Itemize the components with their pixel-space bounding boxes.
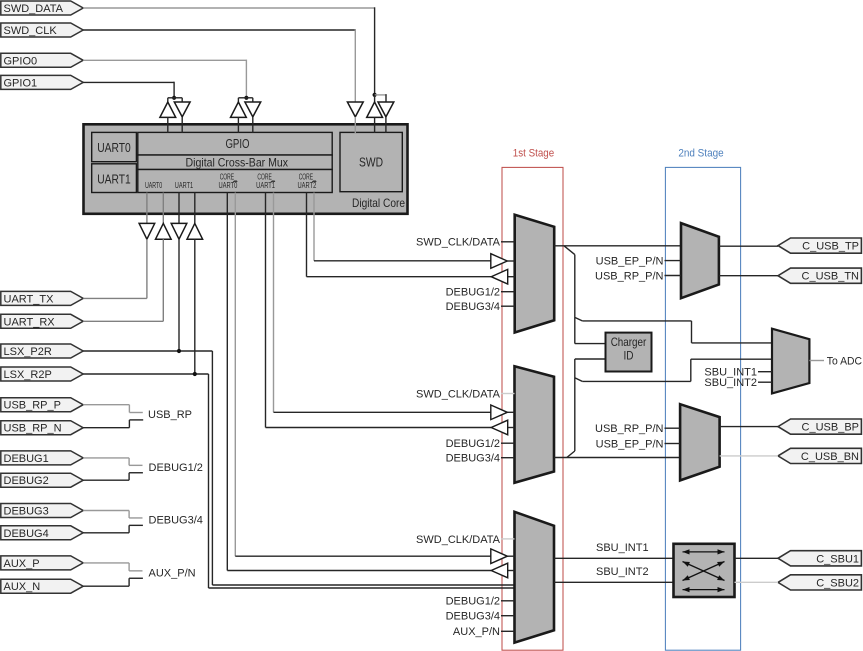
wire SWD_DATA vertical (374, 7, 376, 95)
buffer GPIO0 out (up triangle) (231, 102, 247, 117)
input flag DEBUG3 (1, 504, 83, 518)
input flag LSX_R2P (1, 367, 83, 381)
buffer RX out of mux (491, 420, 514, 435)
buffer TX into mux (491, 405, 515, 420)
svg-text:DEBUG3/4: DEBUG3/4 (446, 453, 500, 465)
mux 2nd-stage top (C_USB_T) (681, 223, 719, 298)
buffer SWD_DATA in (down triangle) (378, 102, 394, 117)
label SBU_INT1 tick to ADC mux (704, 367, 772, 379)
svg-text:SWD_CLK/DATA: SWD_CLK/DATA (416, 237, 501, 249)
label SWD_CLK/DATA input tick (416, 534, 514, 546)
buffer GPIO0 in (down triangle) (245, 102, 261, 117)
label DEBUG3/4 input tick (446, 611, 515, 623)
buffer LSX_P2R (down triangle) (171, 223, 187, 239)
wire CORE_UART2 RX (dark) from mux1 (306, 193, 308, 277)
wire C_USB_TP output (719, 245, 778, 247)
label USB_RP_P/N tick (595, 423, 680, 435)
label USB_EP_P/N tick (596, 438, 680, 450)
wire AUX_P/N pair bracket (83, 563, 143, 586)
svg-text:GPIO0: GPIO0 (4, 55, 38, 67)
svg-text:C_USB_TP: C_USB_TP (802, 241, 859, 253)
input flag AUX_N (1, 579, 83, 593)
output flag C_SBU1 (778, 551, 861, 566)
wire CORE_UART0 RX (dark) from mux3 (226, 193, 228, 571)
input flag USB_RP_P (1, 398, 83, 412)
svg-text:DEBUG1: DEBUG1 (4, 453, 49, 465)
svg-text:DEBUG2: DEBUG2 (4, 475, 49, 487)
node SWD_DATA junction (373, 93, 377, 97)
svg-text:UART1: UART1 (97, 172, 131, 186)
wire UART0 TX from core (146, 193, 148, 224)
input flag SWD_DATA (1, 1, 83, 15)
label DEBUG3/4 input tick (446, 453, 515, 465)
input flag DEBUG1 (1, 451, 83, 465)
wire mux1 output branch diagonal (564, 246, 575, 255)
wire CORE_UART1 RX (dark) from mux2 (265, 193, 267, 428)
wire SWD_CLK vertical (354, 29, 356, 102)
buffer TX into mux (491, 254, 515, 269)
buffer GPIO1 out (up triangle) (160, 102, 176, 117)
input flag USB_RP_N (1, 421, 83, 435)
wire mux2 output branch diagonal (567, 451, 575, 458)
svg-text:USB_RP_P/N: USB_RP_P/N (595, 270, 664, 282)
svg-text:C_SBU1: C_SBU1 (816, 553, 859, 565)
1st Stage region box (502, 148, 563, 650)
svg-text:USB_RP_N: USB_RP_N (4, 423, 62, 435)
node LSX_R2P junction (193, 372, 197, 376)
label DEBUG1/2 input tick (446, 596, 515, 608)
wire LSX_R2P horizontal (83, 373, 208, 375)
node LSX_P2R junction (177, 349, 181, 353)
svg-text:SWD_CLK: SWD_CLK (4, 25, 58, 37)
label DEBUG1/2 input tick (446, 287, 515, 299)
svg-text:SBU_INT2: SBU_INT2 (596, 566, 649, 578)
buffer SWD_CLK in (down triangle) (347, 102, 363, 117)
svg-text:UART_RX: UART_RX (4, 316, 56, 328)
wire GPIO1 horizontal (83, 81, 174, 83)
input flag DEBUG4 (1, 526, 83, 540)
wire UART_RX (162, 239, 164, 321)
wire LSX_P2R vertical to flag line (178, 239, 180, 351)
svg-text:SWD_CLK/DATA: SWD_CLK/DATA (416, 534, 501, 546)
wire LSX_R2P vertical to flag line (194, 239, 196, 374)
label USB_RP_P/N tick (595, 270, 681, 282)
label SBU_INT2 tick to ADC mux (704, 377, 772, 389)
svg-text:USB_RP_P: USB_RP_P (4, 400, 61, 412)
input flag UART_TX (1, 291, 83, 305)
svg-text:1st Stage: 1st Stage (513, 148, 554, 160)
input flag DEBUG2 (1, 473, 83, 487)
svg-text:DEBUG1/2: DEBUG1/2 (446, 438, 500, 450)
node GPIO1 junction (172, 96, 176, 100)
wire mux2 output to 2nd stage (554, 457, 680, 459)
svg-text:UART1: UART1 (256, 181, 275, 190)
svg-text:Digital Cross-Bar Mux: Digital Cross-Bar Mux (186, 155, 289, 169)
wire branch jog to ADC input 2 (575, 378, 583, 382)
wire UART0 RX into core (162, 193, 164, 224)
mux ADC monitor (772, 329, 809, 394)
UART1 block (92, 164, 137, 193)
wire branch jog to ADC input 1 (575, 317, 583, 321)
wire GPIO1 pair tee (168, 97, 182, 99)
svg-text:DEBUG3/4: DEBUG3/4 (149, 514, 203, 526)
buffer RX out of mux (491, 269, 515, 284)
wire SWD_DATA horizontal (83, 7, 374, 9)
svg-text:GPIO: GPIO (225, 137, 249, 151)
svg-text:USB_EP_P/N: USB_EP_P/N (596, 256, 664, 268)
svg-text:UART_TX: UART_TX (4, 293, 55, 305)
svg-text:DEBUG1/2: DEBUG1/2 (446, 596, 500, 608)
svg-text:LSX_P2R: LSX_P2R (4, 346, 52, 358)
buffer LSX_R2P (up triangle) (187, 223, 203, 239)
UART0 block (92, 132, 137, 161)
wire GPIO0 pair tee (238, 97, 252, 99)
svg-text:C_SBU2: C_SBU2 (816, 577, 859, 589)
svg-text:AUX_N: AUX_N (4, 581, 41, 593)
output flag C_USB_BP (778, 419, 861, 434)
wire C_USB_BP output (720, 426, 778, 428)
wire LSX_R2P down to mux3 (208, 374, 210, 588)
wire SWD_CLK horizontal (83, 29, 356, 31)
SWD block (340, 132, 402, 191)
svg-text:DEBUG1/2: DEBUG1/2 (446, 287, 500, 299)
svg-text:UART0: UART0 (145, 181, 163, 190)
wire branch down to Charger ID (574, 255, 576, 344)
label SWD_CLK/DATA input tick (416, 388, 514, 400)
svg-text:DEBUG1/2: DEBUG1/2 (149, 462, 203, 474)
wire SWD_DATA pair jog (375, 94, 387, 96)
svg-text:To ADC: To ADC (827, 356, 862, 368)
svg-text:USB_RP_P/N: USB_RP_P/N (595, 423, 664, 435)
output flag C_USB_TP (778, 238, 861, 253)
svg-text:DEBUG3/4: DEBUG3/4 (446, 611, 500, 623)
svg-text:GPIO1: GPIO1 (4, 77, 38, 89)
svg-text:Charger: Charger (611, 335, 647, 349)
svg-text:AUX_P/N: AUX_P/N (453, 626, 500, 638)
input flag GPIO0 (1, 53, 83, 67)
svg-text:ID: ID (624, 349, 634, 363)
wire SWD_DATA into SWD block (374, 117, 376, 133)
wire SWD_CLK into SWD block (354, 117, 356, 133)
wire UART1 RX into core (194, 193, 196, 224)
buffer UART_TX (down triangle) (139, 223, 155, 239)
mux 1st-stage middle (USB bottom) (515, 366, 555, 483)
wire UART1 TX from core (178, 193, 180, 224)
svg-text:2nd Stage: 2nd Stage (678, 148, 723, 160)
svg-text:DEBUG3: DEBUG3 (4, 506, 49, 518)
svg-text:AUX_P: AUX_P (4, 558, 40, 570)
svg-text:SWD: SWD (359, 156, 383, 170)
wire SBU_INT2 mux3 to crossbar (554, 566, 674, 582)
label DEBUG3/4 input tick (446, 301, 515, 313)
crossbar switch block (674, 544, 735, 597)
svg-text:DEBUG3/4: DEBUG3/4 (446, 301, 500, 313)
buffer RX out of mux (491, 563, 514, 578)
buffer TX into mux (491, 549, 515, 564)
svg-text:DEBUG4: DEBUG4 (4, 528, 49, 540)
Charger ID block (606, 333, 652, 372)
svg-text:UART1: UART1 (175, 181, 194, 190)
input flag LSX_P2R (1, 344, 83, 358)
output flag C_USB_BN (778, 448, 861, 463)
wire branch up to Charger ID input 2 (574, 359, 576, 451)
svg-text:C_USB_BN: C_USB_BN (801, 451, 859, 463)
wire C_SBU1 output (735, 557, 779, 559)
mux 2nd-stage middle (C_USB_B) (680, 404, 720, 480)
wire GPIO0 vertical (245, 60, 247, 98)
buffer GPIO1 in (down triangle) (174, 102, 190, 117)
wire mux1 output to 2nd stage (554, 245, 681, 247)
svg-text:C_USB_BP: C_USB_BP (802, 422, 859, 434)
wire CORE_UART0 TX (gray) to mux3 (234, 193, 236, 557)
svg-text:UART2: UART2 (297, 181, 316, 190)
label USB_EP_P/N tick (596, 256, 681, 268)
Digital Cross-Bar Mux block (138, 155, 332, 170)
input flag UART_RX (1, 314, 83, 328)
svg-text:LSX_R2P: LSX_R2P (4, 369, 52, 381)
wire UART_TX (146, 239, 148, 298)
output flag C_USB_TN (778, 268, 861, 283)
wire LSX_P2R down to mux3 (211, 351, 213, 585)
svg-text:UART0: UART0 (218, 181, 237, 190)
svg-text:AUX_P/N: AUX_P/N (149, 567, 196, 579)
wire C_SBU2 output (alt path) (735, 581, 779, 583)
svg-text:Digital Core: Digital Core (352, 196, 405, 210)
mux 1st-stage bottom (SBU) (515, 512, 555, 643)
wire USB_RP pair bracket (83, 405, 143, 428)
wire GPIO1 into GPIO block (167, 117, 169, 133)
label DEBUG1/2 input tick (446, 438, 515, 450)
wire CORE_UART1 TX (gray) to mux2 (273, 193, 275, 413)
crossbar pin row block (138, 170, 332, 193)
label AUX_P/N input tick (453, 626, 515, 638)
svg-text:SWD_DATA: SWD_DATA (4, 3, 64, 15)
node GPIO0 junction (244, 96, 248, 100)
wire GPIO0 into GPIO block (237, 117, 239, 133)
svg-text:USB_EP_P/N: USB_EP_P/N (596, 438, 664, 450)
svg-text:UART0: UART0 (97, 141, 131, 155)
wire LSX_P2R horizontal (83, 350, 212, 352)
mux 1st-stage top (USB top) (515, 215, 555, 333)
svg-text:SBU_INT2: SBU_INT2 (704, 377, 757, 389)
wire DEBUG3/4 pair bracket (83, 511, 143, 533)
label SWD_CLK/DATA input tick (416, 237, 515, 249)
input flag GPIO1 (1, 75, 83, 89)
wire GPIO1 vertical (173, 82, 175, 98)
wire C_USB_TN output (719, 275, 778, 277)
2nd Stage region box (665, 148, 740, 650)
buffer UART_RX (up triangle) (156, 223, 172, 239)
output flag C_SBU2 (778, 575, 861, 590)
input flag AUX_P (1, 556, 83, 570)
wire CORE_UART2 TX (gray) to mux1 (313, 193, 315, 261)
svg-text:SBU_INT1: SBU_INT1 (596, 542, 649, 554)
wire GPIO0 horizontal (83, 59, 246, 61)
wire SBU_INT1 mux3 to crossbar (554, 542, 674, 558)
svg-text:C_USB_TN: C_USB_TN (802, 271, 860, 283)
wire DEBUG1/2 pair bracket (83, 458, 143, 480)
GPIO block (138, 132, 332, 155)
wire C_USB_BN output (alt path) (720, 455, 778, 457)
svg-text:USB_RP: USB_RP (148, 409, 192, 421)
wire To ADC (809, 356, 862, 368)
input flag SWD_CLK (1, 23, 83, 37)
svg-text:SWD_CLK/DATA: SWD_CLK/DATA (416, 388, 501, 400)
buffer SWD_DATA out (up triangle) (367, 102, 383, 117)
Digital Core block U1 (84, 124, 408, 214)
